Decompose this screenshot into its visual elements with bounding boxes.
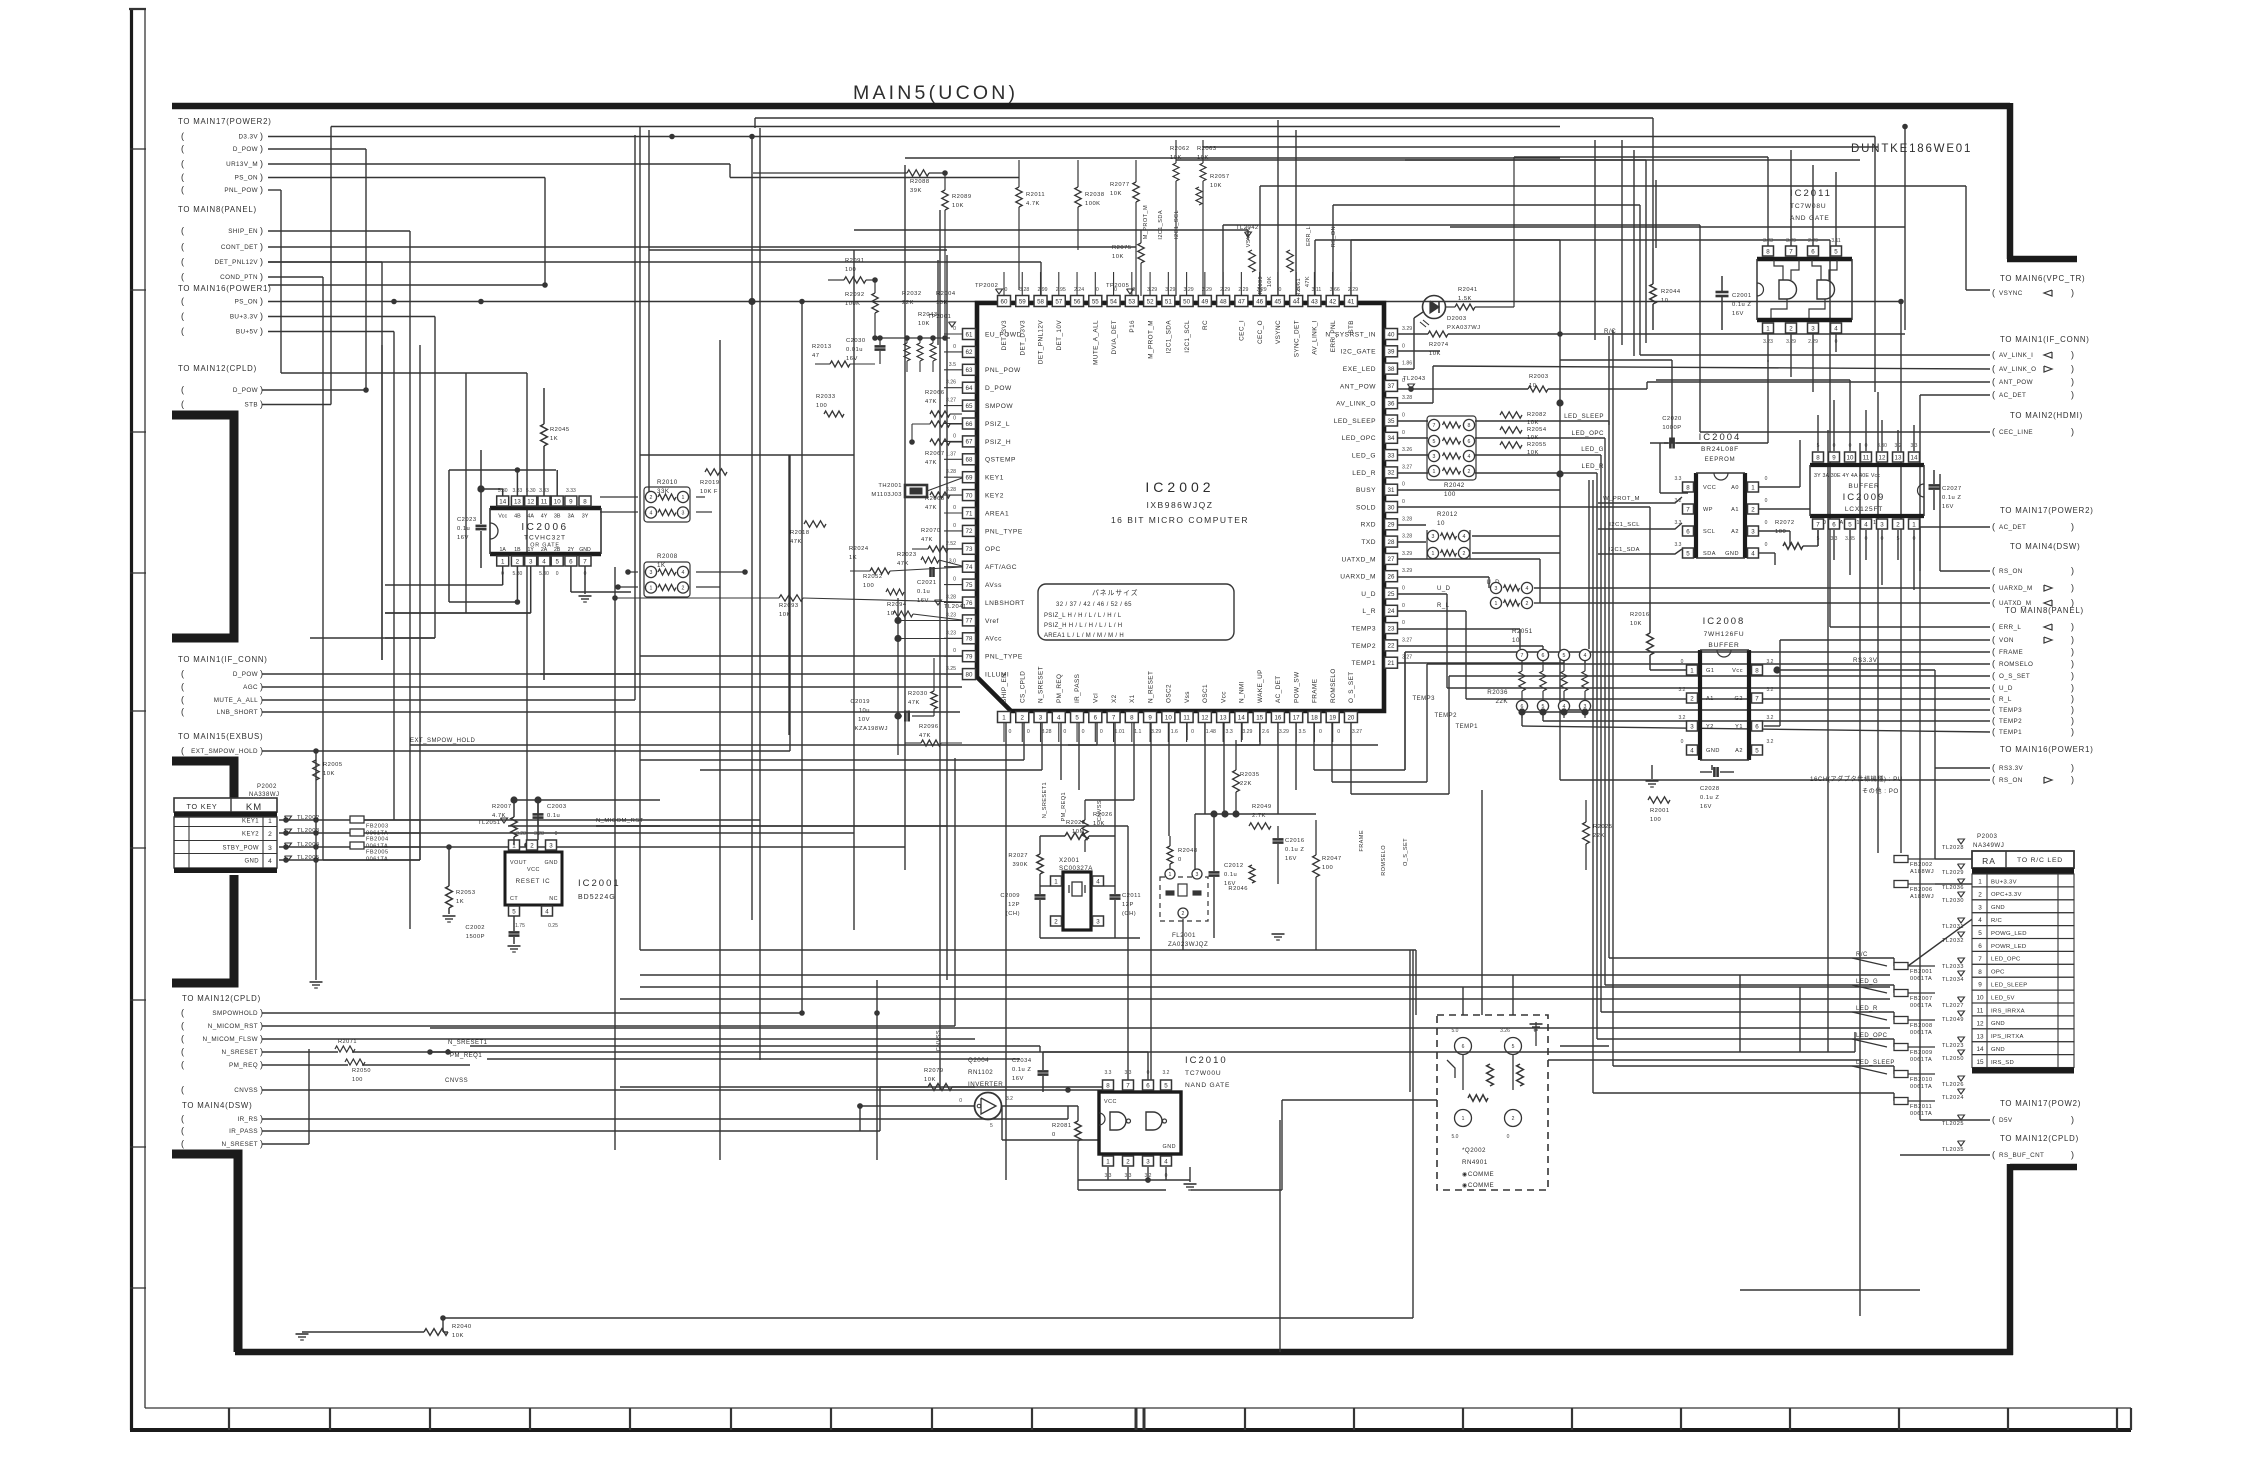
- svg-text:10: 10: [1165, 714, 1172, 721]
- svg-text:A188WJ: A188WJ: [1910, 894, 1934, 900]
- svg-text:13: 13: [514, 498, 521, 505]
- svg-text:11: 11: [1863, 454, 1870, 461]
- svg-text:LED_G: LED_G: [1352, 453, 1376, 460]
- svg-text:AC_DET: AC_DET: [1999, 524, 2026, 531]
- svg-text:I2C1_SDA: I2C1_SDA: [1166, 320, 1173, 354]
- svg-text:GND: GND: [1163, 1144, 1176, 1150]
- svg-text:2: 2: [1054, 918, 1058, 925]
- svg-text:TL2042: TL2042: [1236, 225, 1259, 231]
- svg-text:2.29: 2.29: [1808, 238, 1818, 244]
- svg-text:TC7W00U: TC7W00U: [1185, 1070, 1221, 1077]
- svg-text:0: 0: [1402, 603, 1405, 609]
- svg-text:16V: 16V: [846, 356, 858, 362]
- svg-text:0: 0: [953, 648, 956, 654]
- svg-text:PNL_TYPE: PNL_TYPE: [985, 654, 1023, 661]
- svg-text:RN1102: RN1102: [968, 1069, 993, 1076]
- svg-text:LED_SLEEP: LED_SLEEP: [1856, 1060, 1895, 1066]
- svg-text:47K: 47K: [897, 561, 909, 567]
- svg-text:3.29: 3.29: [1279, 729, 1289, 735]
- svg-text:FB2006: FB2006: [1910, 887, 1933, 893]
- svg-text:KZA198WJ: KZA198WJ: [855, 726, 888, 732]
- svg-text:8: 8: [1978, 969, 1982, 976]
- svg-text:47K: 47K: [919, 733, 931, 739]
- svg-text:1500P: 1500P: [466, 934, 485, 940]
- svg-text:R2054: R2054: [1527, 427, 1547, 433]
- svg-text:R2074: R2074: [1429, 342, 1449, 348]
- svg-text:28: 28: [1388, 539, 1395, 546]
- svg-text:N_SRESET: N_SRESET: [1038, 666, 1045, 703]
- svg-text:R2018: R2018: [790, 530, 810, 536]
- svg-text:1: 1: [1169, 872, 1172, 878]
- svg-text:FB2010: FB2010: [1910, 1077, 1933, 1083]
- svg-text:1.1: 1.1: [1134, 729, 1141, 735]
- svg-text:IC2002: IC2002: [1145, 479, 1214, 495]
- svg-text:C2034: C2034: [1012, 1058, 1032, 1064]
- svg-text:1.48: 1.48: [1206, 729, 1216, 735]
- svg-text:3.26: 3.26: [1402, 447, 1412, 453]
- svg-text:24: 24: [1388, 608, 1395, 615]
- svg-text:NAND GATE: NAND GATE: [1185, 1082, 1230, 1089]
- svg-text:8: 8: [1106, 1082, 1110, 1089]
- svg-text:71: 71: [966, 510, 973, 517]
- svg-text:POWG_LED: POWG_LED: [1991, 931, 2027, 937]
- svg-text:R2052: R2052: [863, 574, 883, 580]
- svg-text:1A: 1A: [500, 547, 507, 553]
- svg-text:3.29: 3.29: [1151, 729, 1161, 735]
- svg-text:10K: 10K: [1210, 183, 1222, 189]
- svg-text:C2021: C2021: [917, 580, 937, 586]
- svg-text:43: 43: [1311, 298, 1318, 305]
- svg-text:C2027: C2027: [1942, 486, 1962, 492]
- svg-text:N_MICOM_FLSW: N_MICOM_FLSW: [202, 1036, 258, 1043]
- svg-text:R2096: R2096: [919, 724, 939, 730]
- svg-text:(: (: [1992, 705, 1995, 715]
- svg-text:I2C1_SCL: I2C1_SCL: [1174, 210, 1180, 239]
- svg-text:0.1u: 0.1u: [547, 813, 560, 819]
- svg-text:39: 39: [1388, 349, 1395, 356]
- svg-text:A1: A1: [1706, 696, 1714, 702]
- svg-text:0: 0: [1681, 739, 1684, 745]
- svg-text:3: 3: [1039, 714, 1043, 721]
- svg-text:AREA1: AREA1: [985, 510, 1009, 517]
- svg-text:R2005: R2005: [323, 762, 343, 768]
- svg-text:4B: 4B: [514, 514, 521, 520]
- svg-text:TL2003: TL2003: [297, 828, 320, 834]
- svg-text:R2079: R2079: [924, 1068, 944, 1074]
- svg-text:0.1u: 0.1u: [1224, 872, 1237, 878]
- svg-text:16: 16: [1274, 714, 1281, 721]
- svg-text:10K: 10K: [1630, 621, 1642, 627]
- svg-text:TL2025: TL2025: [1942, 1121, 1964, 1127]
- svg-text:10: 10: [1512, 637, 1520, 644]
- svg-text:): ): [2071, 671, 2074, 681]
- svg-text:3.2: 3.2: [1895, 443, 1902, 449]
- svg-text:0: 0: [1913, 536, 1916, 542]
- svg-text:SOLD: SOLD: [1356, 504, 1376, 511]
- svg-text:3.11: 3.11: [1831, 238, 1841, 244]
- svg-text:(: (: [1992, 598, 1995, 608]
- svg-text:6: 6: [1978, 943, 1982, 950]
- svg-text:1: 1: [268, 818, 272, 825]
- svg-text:DET_PNL12V: DET_PNL12V: [214, 259, 258, 266]
- svg-text:0: 0: [1337, 729, 1340, 735]
- svg-text:PM_REQ1: PM_REQ1: [450, 1053, 482, 1059]
- svg-text:47K: 47K: [1305, 276, 1311, 287]
- svg-text:RS_ON: RS_ON: [1331, 226, 1337, 247]
- svg-text:4: 4: [1584, 653, 1587, 659]
- svg-text:3.28: 3.28: [1019, 287, 1029, 293]
- svg-text:TL2028: TL2028: [1942, 845, 1964, 851]
- svg-text:TP2002: TP2002: [975, 283, 998, 289]
- svg-text:1: 1: [1106, 1158, 1110, 1165]
- svg-text:2: 2: [516, 558, 520, 565]
- svg-text:OPC: OPC: [1991, 970, 2005, 976]
- svg-text:3.2: 3.2: [1006, 1096, 1013, 1102]
- svg-text:3.3: 3.3: [1226, 729, 1233, 735]
- svg-text:18: 18: [1311, 714, 1318, 721]
- svg-text:2A: 2A: [541, 547, 548, 553]
- svg-text:61: 61: [966, 331, 973, 338]
- svg-text:GND: GND: [1725, 551, 1739, 557]
- svg-text:R2070: R2070: [921, 528, 941, 534]
- svg-text:15: 15: [1976, 1059, 1984, 1066]
- svg-text:FRAME: FRAME: [1359, 830, 1365, 852]
- svg-text:10K: 10K: [924, 1077, 936, 1083]
- svg-text:GND: GND: [545, 860, 558, 866]
- svg-text:8: 8: [1686, 484, 1690, 491]
- svg-text:): ): [260, 185, 263, 195]
- svg-text:7: 7: [1978, 956, 1982, 963]
- svg-text:3: 3: [1096, 918, 1100, 925]
- svg-text:10K: 10K: [1093, 821, 1105, 827]
- svg-text:TEMP2: TEMP2: [1434, 713, 1457, 719]
- svg-text:TL2002: TL2002: [297, 815, 320, 821]
- svg-text:TO MAIN12(CPLD): TO MAIN12(CPLD): [182, 994, 261, 1003]
- svg-text:0: 0: [1681, 659, 1684, 665]
- svg-text:R2003: R2003: [1529, 374, 1549, 380]
- svg-text:(: (: [1992, 775, 1995, 785]
- svg-text:R2007: R2007: [492, 804, 512, 810]
- svg-text:TEMP1: TEMP1: [1999, 729, 2022, 736]
- svg-text:3.28: 3.28: [1402, 534, 1412, 540]
- svg-text:): ): [2071, 716, 2074, 726]
- svg-text:R2030: R2030: [908, 691, 928, 697]
- svg-text:RXD: RXD: [1361, 522, 1376, 529]
- svg-text:2Y: 2Y: [568, 547, 575, 553]
- svg-text:LNB_SHORT: LNB_SHORT: [217, 709, 258, 716]
- svg-text:R2092: R2092: [845, 292, 865, 298]
- svg-text:ZA023WJQZ: ZA023WJQZ: [1168, 941, 1208, 948]
- svg-text:TO KEY: TO KEY: [186, 802, 217, 811]
- svg-text:): ): [260, 1008, 263, 1018]
- svg-text:M1103J03: M1103J03: [871, 492, 902, 498]
- svg-text:47K: 47K: [790, 539, 802, 545]
- svg-text:AVss: AVss: [985, 582, 1002, 589]
- svg-text:5: 5: [1563, 653, 1566, 659]
- svg-text:22K: 22K: [1240, 781, 1252, 787]
- svg-text:0: 0: [1402, 343, 1405, 349]
- svg-text:(: (: [1992, 364, 1995, 374]
- svg-text:3.29: 3.29: [1242, 729, 1252, 735]
- svg-text:3.28: 3.28: [946, 487, 956, 493]
- svg-text:TL2035: TL2035: [1942, 1147, 1964, 1153]
- svg-text:MUTE_A_ALL: MUTE_A_ALL: [214, 697, 258, 704]
- svg-text:0: 0: [1063, 729, 1066, 735]
- svg-text:(: (: [1992, 377, 1995, 387]
- svg-text:(: (: [181, 1034, 184, 1044]
- svg-text:FB2011: FB2011: [1910, 1104, 1932, 1110]
- svg-text:): ): [2071, 1150, 2074, 1160]
- svg-text:67: 67: [966, 439, 973, 446]
- svg-text:0: 0: [1027, 729, 1030, 735]
- svg-text:3.35: 3.35: [1845, 536, 1855, 542]
- svg-text:10K: 10K: [918, 321, 930, 327]
- svg-text:OSC2: OSC2: [1166, 684, 1173, 703]
- svg-text:TO MAIN4(DSW): TO MAIN4(DSW): [2010, 542, 2080, 551]
- svg-text:4.7K: 4.7K: [1026, 201, 1040, 207]
- svg-text:0: 0: [959, 1098, 962, 1104]
- svg-text:R2072: R2072: [1775, 520, 1795, 526]
- svg-text:): ): [260, 226, 263, 236]
- svg-text:3: 3: [1433, 454, 1436, 460]
- svg-text:5.30: 5.30: [526, 488, 536, 494]
- svg-text:3.23: 3.23: [946, 612, 956, 618]
- svg-text:100K: 100K: [845, 301, 861, 307]
- svg-text:7: 7: [1755, 695, 1759, 702]
- svg-text:(: (: [1992, 522, 1995, 532]
- svg-text:KEY1: KEY1: [242, 819, 259, 825]
- svg-text:AV_LINK_I: AV_LINK_I: [1312, 320, 1319, 355]
- svg-text:LED_OPC: LED_OPC: [1856, 1033, 1888, 1039]
- svg-text:7: 7: [1789, 248, 1793, 255]
- svg-text:R2040: R2040: [452, 1324, 472, 1330]
- svg-text:3.2: 3.2: [1679, 715, 1686, 721]
- svg-text:1: 1: [1002, 714, 1006, 721]
- svg-text:100: 100: [863, 583, 874, 589]
- svg-text:3: 3: [1690, 723, 1694, 730]
- svg-text:IC2008: IC2008: [1703, 616, 1746, 627]
- svg-text:CNVSS: CNVSS: [234, 1087, 258, 1094]
- svg-text:R2049: R2049: [1252, 804, 1272, 810]
- svg-text:10K: 10K: [323, 771, 335, 777]
- svg-text:N_RESET: N_RESET: [1147, 671, 1154, 703]
- svg-text:6: 6: [1462, 1044, 1465, 1050]
- svg-text:37: 37: [1388, 383, 1395, 390]
- svg-text:(: (: [1992, 1150, 1995, 1160]
- svg-text:10K: 10K: [1527, 420, 1539, 426]
- svg-text:3.3: 3.3: [1675, 476, 1682, 482]
- svg-text:5: 5: [1755, 747, 1759, 754]
- svg-text:51: 51: [1165, 298, 1172, 305]
- svg-text:AV_LINK_I: AV_LINK_I: [1999, 352, 2033, 359]
- svg-text:R2032: R2032: [902, 291, 922, 297]
- svg-text:10K: 10K: [1429, 351, 1441, 357]
- svg-text:(: (: [181, 185, 184, 195]
- svg-text:LED_R: LED_R: [1582, 463, 1604, 470]
- svg-text:CEC_LINE: CEC_LINE: [1999, 429, 2033, 436]
- svg-text:BUFFER: BUFFER: [1708, 642, 1739, 649]
- svg-text:2.29: 2.29: [1808, 339, 1818, 345]
- svg-text:12: 12: [1879, 454, 1886, 461]
- svg-text:): ): [260, 1060, 263, 1070]
- svg-text:1: 1: [501, 558, 505, 565]
- svg-text:): ): [2071, 635, 2074, 645]
- svg-text:(CH): (CH): [1006, 911, 1020, 917]
- svg-text:FRAME: FRAME: [1999, 649, 2023, 656]
- svg-text:(: (: [181, 1008, 184, 1018]
- svg-text:M_PROT_M: M_PROT_M: [1143, 205, 1149, 239]
- svg-text:R2010: R2010: [657, 479, 678, 486]
- svg-text:): ): [260, 326, 263, 336]
- svg-text:5: 5: [990, 1123, 993, 1129]
- svg-text:10: 10: [554, 498, 561, 505]
- svg-text:(: (: [181, 1139, 184, 1149]
- svg-text:(: (: [181, 159, 184, 169]
- svg-text:TL2029: TL2029: [1942, 870, 1964, 876]
- svg-text:): ): [260, 1139, 263, 1149]
- svg-text:4: 4: [1864, 521, 1868, 528]
- svg-text:): ): [2071, 364, 2074, 374]
- svg-text:80: 80: [966, 671, 973, 678]
- svg-text:): ): [2071, 427, 2074, 437]
- svg-text:BUFFER: BUFFER: [1848, 483, 1879, 490]
- svg-text:100: 100: [845, 267, 856, 273]
- svg-text:0: 0: [1402, 482, 1405, 488]
- svg-text:IC2011: IC2011: [1790, 188, 1832, 199]
- svg-text:16V: 16V: [1942, 504, 1954, 510]
- svg-text:47K: 47K: [925, 399, 937, 405]
- svg-text:0.1u: 0.1u: [457, 526, 470, 532]
- svg-text:FB2004: FB2004: [366, 837, 389, 843]
- svg-text:0: 0: [953, 523, 956, 529]
- svg-text:3: 3: [682, 511, 685, 517]
- svg-text:0061TA: 0061TA: [1910, 1003, 1932, 1009]
- svg-text:VON: VON: [1999, 637, 2014, 644]
- svg-text:26: 26: [1388, 574, 1395, 581]
- svg-text:(: (: [1992, 390, 1995, 400]
- svg-text:21: 21: [1388, 660, 1395, 667]
- svg-text:): ): [260, 1021, 263, 1031]
- svg-text:Vcc: Vcc: [1220, 691, 1227, 703]
- svg-text:0: 0: [1765, 542, 1768, 548]
- svg-text:79: 79: [966, 654, 973, 661]
- svg-text:C2023: C2023: [457, 517, 477, 523]
- svg-text:OSC1: OSC1: [1202, 684, 1209, 703]
- svg-text:1: 1: [1766, 325, 1770, 332]
- svg-text:R2004: R2004: [936, 291, 956, 297]
- svg-text:(: (: [181, 385, 184, 395]
- svg-text:AVcc: AVcc: [985, 636, 1002, 643]
- svg-text:R2077: R2077: [1110, 182, 1130, 188]
- svg-text:0: 0: [1402, 413, 1405, 419]
- svg-text:R2033: R2033: [816, 394, 836, 400]
- svg-text:IC2004: IC2004: [1699, 432, 1742, 443]
- svg-text:77: 77: [966, 618, 973, 625]
- svg-text:C2016: C2016: [1285, 838, 1305, 844]
- svg-text:): ): [260, 695, 263, 705]
- svg-text:(: (: [181, 172, 184, 182]
- svg-text:58: 58: [1037, 298, 1044, 305]
- svg-text:R2019: R2019: [700, 480, 720, 486]
- svg-text:TL2050: TL2050: [1942, 1056, 1964, 1062]
- svg-text:): ): [2071, 694, 2074, 704]
- svg-text:4Y: 4Y: [541, 514, 548, 520]
- svg-text:(: (: [1992, 583, 1995, 593]
- svg-text:7: 7: [1126, 1082, 1130, 1089]
- svg-text:TL2032: TL2032: [1942, 938, 1964, 944]
- svg-text:TXD: TXD: [1361, 539, 1376, 546]
- svg-text:0.25: 0.25: [548, 923, 558, 929]
- svg-text:R2039: R2039: [1258, 276, 1264, 294]
- svg-text:): ): [260, 242, 263, 252]
- svg-text:): ): [260, 1047, 263, 1057]
- svg-text:): ): [2071, 763, 2074, 773]
- svg-text:AC_DET: AC_DET: [1275, 675, 1282, 703]
- svg-text:1: 1: [650, 586, 653, 592]
- svg-text:3.28: 3.28: [516, 831, 526, 837]
- svg-text:): ): [2071, 288, 2074, 298]
- svg-text:U_D: U_D: [1437, 586, 1451, 592]
- svg-text:1: 1: [1054, 878, 1058, 885]
- svg-text:64: 64: [966, 385, 973, 392]
- svg-text:0: 0: [1835, 339, 1838, 345]
- svg-text:R2027: R2027: [1008, 853, 1028, 859]
- svg-text:3.29: 3.29: [1165, 287, 1175, 293]
- svg-text:45: 45: [1274, 298, 1281, 305]
- svg-text:3.27: 3.27: [946, 398, 956, 404]
- svg-text:DET_PNL12V: DET_PNL12V: [1038, 320, 1045, 364]
- svg-text:0: 0: [1052, 1132, 1056, 1138]
- svg-text:CT: CT: [510, 896, 518, 902]
- svg-text:パネルサイズ: パネルサイズ: [1092, 588, 1139, 597]
- svg-text:10K: 10K: [1267, 276, 1273, 287]
- svg-text:11: 11: [1977, 1008, 1984, 1015]
- svg-text:2: 2: [1896, 521, 1900, 528]
- svg-text:3.26: 3.26: [946, 380, 956, 386]
- svg-text:57: 57: [1055, 298, 1062, 305]
- svg-text:TO MAIN4(DSW): TO MAIN4(DSW): [182, 1101, 252, 1110]
- svg-text:TL2051: TL2051: [478, 820, 501, 826]
- svg-text:3.3: 3.3: [1105, 1070, 1112, 1076]
- svg-text:R2057: R2057: [1210, 174, 1230, 180]
- svg-text:1B: 1B: [514, 547, 521, 553]
- svg-text:): ): [2071, 1115, 2074, 1125]
- svg-text:5: 5: [1164, 1082, 1168, 1089]
- svg-text:3.5: 3.5: [949, 362, 956, 368]
- svg-text:3.3: 3.3: [1911, 443, 1918, 449]
- svg-text:TO MAIN12(CPLD): TO MAIN12(CPLD): [2000, 1134, 2079, 1143]
- svg-text:1.6: 1.6: [1171, 729, 1178, 735]
- svg-text:62: 62: [966, 349, 973, 356]
- svg-text:0061TA: 0061TA: [1910, 1084, 1932, 1090]
- svg-text:TO MAIN8(PANEL): TO MAIN8(PANEL): [2005, 606, 2084, 615]
- svg-text:4: 4: [650, 511, 653, 517]
- svg-text:10K: 10K: [1110, 191, 1122, 197]
- svg-text:D_POW: D_POW: [233, 387, 258, 394]
- svg-text:13: 13: [1976, 1033, 1984, 1040]
- svg-text:(: (: [1992, 727, 1995, 737]
- svg-text:D_POW: D_POW: [233, 671, 258, 678]
- svg-text:R2050: R2050: [352, 1068, 371, 1074]
- svg-text:3: 3: [1751, 528, 1755, 535]
- svg-text:VOUT: VOUT: [510, 860, 527, 866]
- svg-text:AGC: AGC: [243, 684, 258, 691]
- svg-text:0: 0: [953, 416, 956, 422]
- svg-text:3Y 3A 30E 4Y 4A 40E Vcc: 3Y 3A 30E 4Y 4A 40E Vcc: [1814, 473, 1880, 479]
- svg-text:10: 10: [1661, 298, 1668, 304]
- svg-text:0: 0: [1765, 476, 1768, 482]
- svg-text:N_SRESET: N_SRESET: [222, 1049, 258, 1056]
